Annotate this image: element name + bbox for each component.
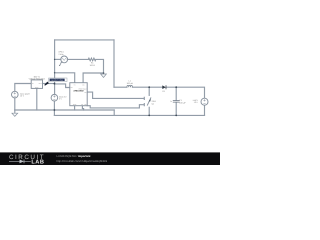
svg-text:http://circuitlab.com/c/v8kjw9: http://circuitlab.com/c/v8kjw9cnw8kq6b2k… <box>57 160 108 163</box>
wire lamp bottom <box>204 105 206 115</box>
wire V1 bottom <box>14 98 16 110</box>
node junction switch / rail B <box>148 115 150 117</box>
microcontroller U1 (IC box) <box>70 83 87 106</box>
svg-text:1u: 1u <box>170 100 172 103</box>
node junction cap / rail B <box>175 115 177 117</box>
wire switch top <box>148 87 150 95</box>
wire right vertical of top loop <box>113 40 115 87</box>
node junction cap / y87 <box>175 86 177 88</box>
node junction branch pin1 <box>54 72 55 73</box>
footer black bar <box>0 152 220 165</box>
wire regulator out to net dot <box>43 83 55 85</box>
svg-text:100 Ω: 100 Ω <box>90 64 96 67</box>
wire IC bottom pin2 jog <box>82 106 83 110</box>
voltage source V2 <box>51 94 58 101</box>
voltage regulator BATT1 <box>31 80 42 89</box>
node junction switch / y87 <box>148 86 150 88</box>
ground (top branch) <box>101 74 107 78</box>
wire V1 ground stem <box>14 110 16 113</box>
wire y87 rail to inductor <box>114 86 127 88</box>
svg-text:LAB: LAB <box>31 160 44 165</box>
function generator XFG1 <box>60 56 67 64</box>
svg-text:100 µF: 100 µF <box>179 102 186 105</box>
wire switch bottom <box>148 107 150 115</box>
node junction V2 / rail A <box>54 109 56 111</box>
lamp LMP1 <box>201 98 208 105</box>
svg-text:Voltage Regulator: Voltage Regulator <box>29 78 46 81</box>
wire inductor to diode <box>132 86 162 88</box>
net label box "regulated voltage" <box>49 78 67 82</box>
wire IC bottom pin1 <box>74 106 76 110</box>
wire stub to function generator <box>55 58 61 60</box>
node junction pin2/ground stem <box>103 72 105 74</box>
wire V2 bottom <box>53 101 55 110</box>
node junction FG stub <box>54 59 55 60</box>
capacitor C1 <box>173 101 180 103</box>
ground (V1) <box>12 113 18 116</box>
wire ground rail A <box>15 109 114 111</box>
resistor R1 <box>88 58 96 61</box>
inductor L1 <box>127 85 133 87</box>
wire FG to R1 <box>68 58 89 60</box>
wire left vertical (regulated net) <box>54 40 56 95</box>
wire diode to lamp top <box>166 87 204 98</box>
CircuitLab logo diode glyph + LAB <box>9 160 44 166</box>
svg-text:regulated voltage: regulated voltage <box>51 79 64 82</box>
wire rail A to rail B connector at x54 <box>53 110 55 115</box>
node junction net dot <box>54 83 56 85</box>
voltage source V1 <box>12 91 19 98</box>
diode D1 <box>162 85 166 89</box>
wire IC right upper to switch control 1 <box>87 92 143 98</box>
switch SW1 (voltage controlled) <box>147 97 151 105</box>
wire R1 to ground drop <box>96 59 104 74</box>
wire capacitor bottom <box>175 102 177 115</box>
wire IC right lower to switch control 2 <box>87 105 143 108</box>
net flag (selected) <box>44 82 49 86</box>
wire top rail <box>55 39 114 41</box>
svg-text:2 kHz: 2 kHz <box>58 53 63 56</box>
wire rail A to rail B connector at x114 <box>113 110 115 115</box>
wire IC top pin2 to ground stem <box>83 73 103 83</box>
wire regulator gnd stem <box>36 88 38 110</box>
switch control pin ticks <box>143 97 145 105</box>
wire branch to IC top pin1 <box>55 73 75 83</box>
svg-text:LU04KJ6Q9JS8 / important: LU04KJ6Q9JS8 / important <box>57 155 91 158</box>
wire V1 top to regulator <box>15 84 31 92</box>
wire rail B <box>54 114 204 116</box>
svg-text:100 µH: 100 µH <box>127 82 134 85</box>
wire capacitor top <box>175 87 177 100</box>
wire jog to IC left pin <box>55 84 70 88</box>
